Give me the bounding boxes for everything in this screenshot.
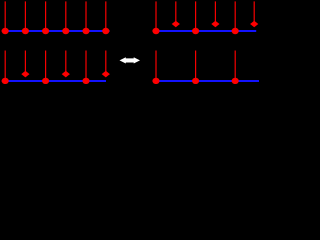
wire: bottom-left site 3 vertical stem [45,51,46,82]
wire: top-left site 4 vertical stem [65,1,66,31]
wire: top-right site 2 vertical stem (short) [175,1,176,24]
node: top-right site 5 dot on line [232,28,239,34]
node: top-left site 3 dot on line [42,28,49,34]
wire: top-right chain bond line (blue) [153,30,257,32]
node: bottom-right site 1 dot on line [152,78,159,84]
wire: bottom-left site 6 vertical stem (short) [105,51,106,75]
wire: top-right site 3 vertical stem [195,1,196,31]
node: top-left site 6 dot on line [102,28,109,34]
wire: top-left site 1 vertical stem [5,1,6,31]
node: top-left site 1 dot on line [2,28,9,34]
node: bottom-right site 3 dot on line [192,78,199,84]
wire: top-left site 6 vertical stem [105,1,106,31]
node: top-left site 5 dot on line [82,28,89,34]
wire: bottom-left site 2 vertical stem (short) [25,51,26,75]
wire: bottom-right site 3 vertical stem [195,51,196,82]
node: top-left site 4 dot on line [62,28,69,34]
wire: bottom-left chain bond line (blue) [2,80,106,82]
wire: top-left site 3 vertical stem [45,1,46,31]
node: top-right site 6 raised dot [250,21,258,28]
node: bottom-left site 3 dot on line [42,78,49,84]
node: bottom-left site 6 raised dot [102,71,110,78]
wire: bottom-right site 5 vertical stem [235,51,236,82]
arrow: white double-headed equivalence arrow [120,57,141,63]
wire: bottom-right chain bond line (blue) [153,80,259,82]
node: bottom-left site 5 dot on line [82,78,89,84]
wire: top-left chain bond line (blue) [2,30,110,32]
node: top-right site 4 raised dot [211,21,219,28]
wire: top-left site 5 vertical stem [85,1,86,31]
node: bottom-left site 4 raised dot [62,71,70,78]
wire: top-right site 4 vertical stem (short) [215,1,216,24]
node: top-right site 1 dot on line [152,28,159,34]
wire: bottom-right site 1 vertical stem [155,51,156,82]
node: bottom-left site 1 dot on line [2,78,9,84]
wire: top-right site 6 vertical stem (short) [254,1,255,24]
wire: bottom-left site 1 vertical stem [5,51,6,82]
node: top-left site 2 dot on line [22,28,29,34]
wire: top-right site 1 vertical stem [155,1,156,31]
wire: bottom-left site 5 vertical stem [85,51,86,82]
node: top-right site 2 raised dot [172,21,180,28]
node: bottom-right site 5 dot on line [232,78,239,84]
node: top-right site 3 dot on line [192,28,199,34]
wire: top-left site 2 vertical stem [25,1,26,31]
wire: top-right site 5 vertical stem [235,1,236,31]
wire: bottom-left site 4 vertical stem (short) [65,51,66,75]
node: bottom-left site 2 raised dot [21,71,29,78]
